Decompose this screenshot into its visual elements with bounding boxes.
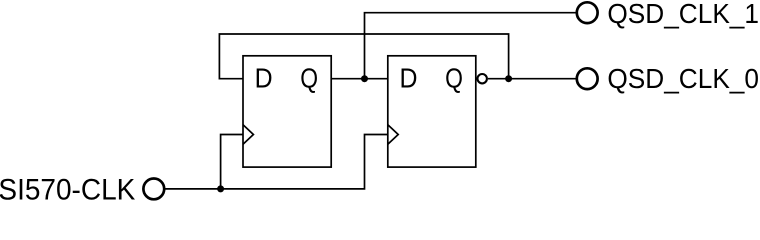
svg-text:Q: Q: [300, 62, 318, 93]
svg-text:D: D: [400, 62, 418, 93]
svg-text:QSD_CLK_1: QSD_CLK_1: [607, 0, 759, 29]
svg-text:QSD_CLK_0: QSD_CLK_0: [607, 63, 759, 94]
svg-text:D: D: [255, 62, 273, 93]
svg-text:Q: Q: [445, 62, 463, 93]
svg-text:SI570-CLK: SI570-CLK: [0, 174, 136, 202]
